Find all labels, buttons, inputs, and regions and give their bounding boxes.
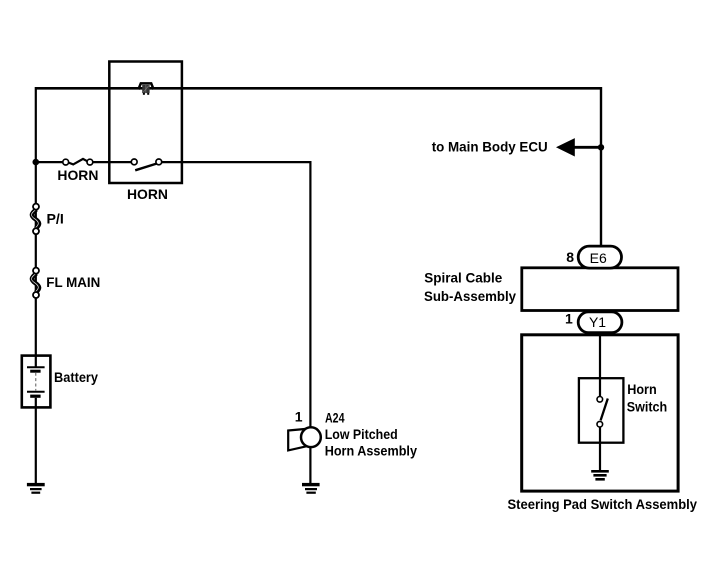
switch HORN contact right	[87, 159, 93, 165]
connector E6	[578, 246, 621, 268]
svg-text:Spiral Cable: Spiral Cable	[424, 270, 502, 286]
horn assembly circle	[301, 427, 321, 447]
svg-text:8: 8	[566, 249, 574, 265]
ground battery	[27, 483, 45, 486]
svg-text:E6: E6	[590, 250, 607, 266]
ground steering	[591, 470, 609, 473]
svg-text:Sub-Assembly: Sub-Assembly	[424, 288, 516, 304]
fuse FL MAIN ribbon	[32, 273, 39, 292]
svg-text:FL MAIN: FL MAIN	[46, 274, 100, 290]
arrow head to Main Body ECU	[556, 138, 575, 156]
battery dashed link	[35, 373, 37, 391]
spiral cable sub-assembly box	[522, 268, 678, 311]
wire horn row: junction to switch	[36, 161, 66, 163]
svg-text:Switch: Switch	[627, 398, 668, 414]
wire to Main Body ECU arrow line	[570, 146, 601, 149]
horn switch contact bottom	[597, 421, 603, 427]
svg-text:Steering Pad Switch Assembly: Steering Pad Switch Assembly	[508, 496, 698, 512]
relay HORN box	[109, 62, 182, 184]
svg-text:Horn: Horn	[627, 381, 657, 397]
horn assembly trumpet	[288, 429, 307, 450]
horn switch blade	[601, 399, 608, 421]
horn switch contact top	[597, 397, 603, 403]
svg-text:1: 1	[295, 408, 303, 424]
svg-text:Low Pitched: Low Pitched	[325, 426, 398, 442]
svg-text:Y1: Y1	[589, 314, 606, 330]
svg-text:1: 1	[565, 311, 573, 327]
svg-text:Battery: Battery	[54, 369, 98, 385]
switch HORN blade	[69, 159, 88, 165]
battery plate long bottom	[27, 391, 45, 393]
wire horn row: relay contact to horn drop corner	[159, 161, 311, 163]
battery box	[22, 356, 51, 408]
node junction dot ECU arrow	[598, 144, 604, 150]
switch HORN contact left	[63, 159, 69, 165]
relay switch blade	[135, 164, 156, 171]
fuse P/I contact bottom	[33, 228, 39, 234]
battery internal wire stub bottom	[35, 398, 37, 408]
wire Y1 to horn switch contact	[599, 332, 601, 397]
svg-text:to Main Body ECU: to Main Body ECU	[432, 139, 548, 155]
svg-text:Horn Assembly: Horn Assembly	[325, 443, 417, 459]
ground horn	[302, 483, 320, 486]
wire right column to E6	[600, 87, 602, 248]
svg-text:HORN: HORN	[57, 167, 98, 183]
relay switch contact left	[131, 159, 137, 165]
node junction dot left column horn row	[33, 159, 40, 166]
relay coil bump	[138, 83, 153, 89]
svg-text:A24: A24	[325, 409, 345, 425]
battery internal wire stub top	[35, 356, 37, 367]
relay switch contact right	[156, 159, 162, 165]
wire horn to ground	[309, 447, 311, 484]
fuse FL MAIN contact top	[33, 268, 39, 274]
relay coil core block	[142, 85, 149, 93]
horn switch box	[579, 378, 624, 443]
wire horn drop vertical	[309, 161, 311, 427]
svg-text:P/I: P/I	[47, 210, 64, 226]
fuse P/I contact top	[33, 204, 39, 210]
fuse P/I ribbon	[32, 209, 39, 228]
svg-text:HORN: HORN	[127, 186, 168, 202]
connector Y1	[578, 312, 622, 333]
battery plate short top	[30, 370, 40, 373]
wire left battery column	[35, 87, 37, 484]
steering pad switch assembly box	[522, 335, 678, 491]
fuse FL MAIN contact bottom	[33, 292, 39, 298]
battery plate long top	[27, 366, 45, 368]
wire top bus	[36, 87, 601, 90]
battery plate short bottom	[30, 395, 40, 398]
wire horn switch to ground	[599, 427, 601, 471]
wire horn row: switch to relay contact	[90, 161, 134, 163]
